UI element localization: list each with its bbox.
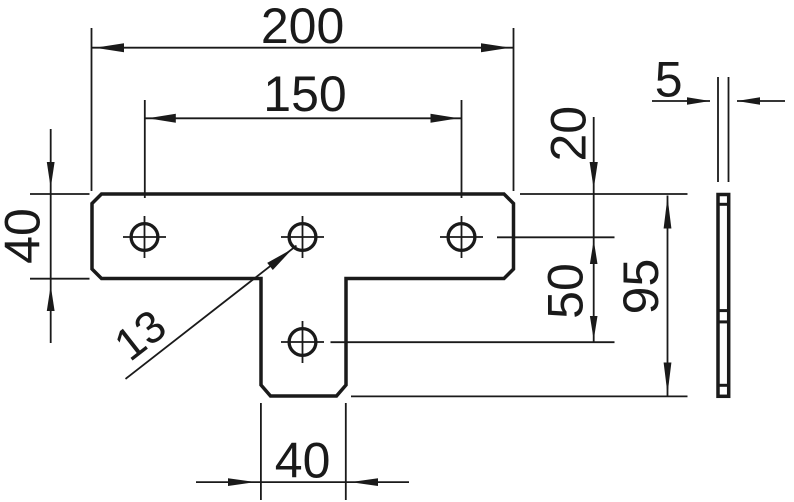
side view extension line left (thickness 5)	[717, 77, 719, 182]
dim 150 extension line right	[461, 100, 463, 198]
svg-text:5: 5	[655, 52, 683, 108]
dim 40 bottom extension line right	[345, 403, 347, 500]
dim 150 arrowhead left	[148, 114, 176, 123]
dim 95 dimension line	[667, 196, 669, 396]
svg-text:40: 40	[0, 208, 51, 264]
hole H1 left (circle)	[131, 224, 158, 251]
dim 5 dimension line right tail	[737, 100, 785, 102]
dim 40 left extension line top	[30, 193, 90, 195]
extension line stem hole axis right (y=342.2)	[331, 341, 615, 343]
dim 40 left arrowhead top (points down)	[47, 162, 55, 188]
dim 5 dimension line left tail	[652, 100, 710, 102]
hole H4 stem (circle)	[289, 329, 316, 356]
svg-text:20: 20	[541, 106, 597, 162]
hole H2 crosshair	[281, 216, 324, 258]
hole H3 crosshair	[440, 216, 483, 258]
extension line top edge right (y=194)	[520, 193, 688, 195]
dim 40 left dimension line	[50, 129, 52, 343]
dim 40 bottom dimension line	[196, 481, 409, 483]
hole H3 right (circle)	[448, 224, 475, 251]
side view extension line right (thickness 5)	[728, 77, 730, 182]
side view chamfer edge line bottom	[718, 384, 729, 387]
dim 200 arrowhead right	[481, 43, 510, 52]
side view edge line middle lower	[718, 320, 729, 323]
dim 20/50 shared dimension line	[593, 117, 595, 342]
hole H2 middle (circle)	[289, 224, 316, 251]
dim 50 arrowhead top (points up)	[590, 240, 598, 264]
dim 40 bottom extension line left	[260, 403, 262, 500]
dim 200 dimension line	[92, 47, 514, 49]
side view outline (right side view of plate)	[718, 195, 729, 397]
dim 95 arrowhead top (points up)	[664, 197, 672, 229]
dim 5 arrowhead left (points right)	[687, 97, 710, 104]
dim 40 bottom arrowhead right (points left)	[351, 478, 379, 486]
dim 40 bottom arrowhead left (points right)	[228, 478, 256, 486]
extension line hole axis right (y=237.3)	[497, 236, 615, 238]
dim 20 arrowhead (points down)	[590, 162, 598, 189]
svg-text:40: 40	[275, 433, 331, 489]
dim 150 extension line left	[144, 100, 146, 198]
dim 150 dimension line	[145, 117, 462, 119]
dim 200 extension line right	[513, 28, 515, 191]
hole H4 crosshair	[281, 321, 324, 363]
hole H1 crosshair	[123, 216, 166, 258]
svg-text:200: 200	[261, 0, 344, 54]
dim 50 arrowhead bottom (points down)	[590, 316, 598, 340]
svg-text:95: 95	[613, 259, 669, 315]
dim 200 extension line left	[91, 28, 93, 191]
dim 40 left arrowhead bottom (points up)	[47, 286, 55, 312]
leader 13 arrowhead	[267, 249, 292, 270]
svg-text:50: 50	[538, 263, 594, 319]
dim 5 arrowhead right (points left)	[737, 97, 760, 104]
leader line for dia 13	[126, 246, 297, 379]
dim 40 left extension line bottom	[30, 278, 90, 280]
svg-text:150: 150	[263, 66, 346, 122]
plate outline (T-shaped plate, front view)	[92, 194, 514, 396]
dim 200 arrowhead left	[95, 43, 124, 52]
dim 95 arrowhead bottom (points down)	[664, 363, 672, 395]
side view chamfer edge line top	[718, 203, 729, 206]
extension line bottom edge right (y=396.4)	[351, 395, 688, 397]
dim 150 arrowhead right	[431, 114, 459, 123]
side view edge line middle upper	[718, 309, 729, 312]
